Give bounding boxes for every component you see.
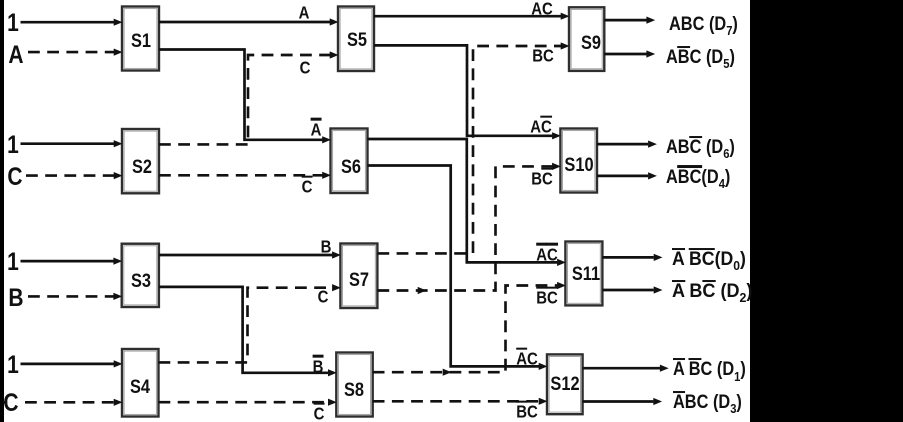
- switch S9 name label: [581, 33, 601, 53]
- wire: S9 output D5: [604, 50, 655, 57]
- switch S11 name label: [572, 264, 600, 284]
- switch S5 (box): [338, 7, 374, 72]
- switch S2 (box): [122, 129, 159, 193]
- net label Bbar into S8: [312, 357, 323, 376]
- wire: S4 output Cbar to S8 select input (dashed): [159, 399, 337, 406]
- wire: S6 output AbarCbar down to S11 data input: [368, 139, 566, 266]
- switch S10 name label: [564, 155, 593, 175]
- switch S3 name label: [131, 271, 151, 291]
- net label AbarC into S12: [516, 350, 538, 369]
- wire: S10 output D4: [597, 172, 657, 179]
- wire: select C into S2 (dashed): [26, 172, 123, 179]
- node label 1 (S4 data): [7, 352, 19, 378]
- wire: S6 output AbarC down to S12 data input: [368, 166, 548, 371]
- output label ABbarCbar (D4): [666, 168, 730, 188]
- switch S8 name label: [344, 379, 364, 399]
- wire: S1 output Abar down to S6 data input: [159, 50, 331, 144]
- switch S12 name label: [550, 374, 579, 394]
- wire: S5 output AC to S9 data input: [374, 13, 570, 20]
- net label AbarCbar into S11: [537, 245, 559, 264]
- wire: S11 output D2: [602, 286, 662, 293]
- node label 1 (S3 data): [7, 249, 19, 275]
- wire: S12 output D3: [583, 398, 663, 405]
- switch S7 (box): [340, 244, 377, 309]
- wire: S1 output A to S5 data input: [159, 18, 339, 25]
- output label AbarBbarC (D1): [673, 360, 746, 380]
- switch S10 (box): [560, 129, 597, 193]
- output label AbarBC (D3): [673, 393, 742, 413]
- net label ACbar into S10: [530, 118, 552, 137]
- node label 1 (S2 data): [7, 132, 19, 158]
- wire: S8 output BbarC to S12 select input (dashed): [373, 398, 548, 405]
- switch S8 (box): [336, 353, 372, 417]
- net label B into S7: [320, 237, 331, 256]
- switch S2 name label: [132, 157, 152, 177]
- wire: S9 output D7: [604, 17, 655, 24]
- wire: S2 output C up to S5 select input (dashed): [159, 51, 339, 144]
- node label C (S2 select): [8, 164, 23, 190]
- wire: S12 output D1: [583, 365, 669, 372]
- node label A (S1 select): [9, 42, 24, 68]
- net label BbarC into S12: [516, 403, 538, 422]
- switch S5 name label: [347, 30, 367, 50]
- node label C (S4 select): [3, 390, 18, 416]
- switch S9 (box): [569, 7, 604, 71]
- switch S6 (box): [331, 129, 368, 194]
- switch S11 (box): [565, 242, 602, 306]
- output label ABCbar (D6): [666, 138, 735, 158]
- wire: S7 output BC up to S9 select input (dashed): [377, 42, 569, 253]
- wire: select C into S4 (dashed, starts at edge): [4, 399, 123, 406]
- wire: S2 output Cbar to S6 select input (dashed): [159, 172, 331, 179]
- net label C into S5: [299, 58, 310, 77]
- node label 1 (S1 data): [7, 10, 19, 36]
- black border strip left edge: [0, 0, 4, 422]
- output label ABC (D7): [669, 15, 738, 35]
- wire: select A into S1 (dashed): [28, 49, 123, 56]
- net label BCbar into S10: [531, 170, 553, 189]
- net label BbarCbar into S11: [537, 289, 559, 308]
- switch S6 name label: [341, 157, 361, 177]
- net label C into S7: [318, 288, 329, 307]
- node label B (S3 select): [8, 285, 23, 311]
- output label AbarBCbar (D2): [672, 282, 752, 302]
- switch S1 (box): [122, 7, 159, 71]
- wire: S7 output BCbar up to S10 select input (dashed, mid arrow): [377, 163, 561, 294]
- net label BC into S9: [532, 47, 554, 66]
- wire: S10 output D6: [597, 141, 657, 148]
- switch S1 name label: [131, 30, 151, 50]
- wire: constant 1 into S3 data input: [21, 258, 123, 265]
- net label Cbar into S6: [302, 178, 313, 197]
- wire: constant 1 into S2 data input: [21, 140, 123, 147]
- wire: select B into S3 (dashed): [28, 293, 122, 300]
- switch S12 (box): [547, 354, 583, 414]
- net label Abar into S6: [310, 120, 321, 139]
- net label AC into S9: [532, 0, 554, 19]
- switch S3 (box): [122, 244, 159, 307]
- wire: S3 output Bbar down to S8 data input: [159, 287, 337, 377]
- wire: S11 output D0: [602, 254, 662, 261]
- switch S7 name label: [349, 269, 369, 289]
- wire: constant 1 into S1 data input: [21, 19, 123, 26]
- net label Cbar into S8: [314, 405, 325, 422]
- black border strip right side: [750, 0, 903, 422]
- output label ABbarC (D5): [666, 48, 735, 68]
- wire: S8 output BbarCbar up to S11 select input (dashed, mid arrow): [373, 282, 566, 376]
- switch S4 name label: [130, 377, 150, 397]
- wire: constant 1 into S4 data input: [21, 360, 123, 367]
- wire: S3 output B to S7 data input: [159, 251, 341, 258]
- wire: S4 output C up to S7 select input (dashed): [159, 284, 341, 362]
- output label AbarBbarCbar (D0): [672, 250, 746, 270]
- net label A into S5: [299, 3, 310, 22]
- wire: S5 output ACbar down to S10 data input: [374, 45, 561, 139]
- switch S4 (box): [122, 349, 159, 417]
